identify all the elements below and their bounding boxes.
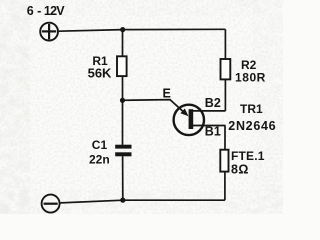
svg-text:180R: 180R — [235, 70, 266, 84]
svg-text:56K: 56K — [88, 66, 112, 81]
wire from C1 to bottom rail — [122, 156, 124, 200]
svg-text:8Ω: 8Ω — [231, 163, 249, 177]
capacitor C1 top plate — [115, 145, 131, 149]
svg-text:B1: B1 — [205, 124, 221, 138]
wire from junction down to C1 — [122, 100, 124, 145]
resistor R1 body — [117, 56, 127, 76]
battery negative terminal — [42, 195, 60, 213]
emitter arrowhead — [180, 109, 188, 117]
earphone FTE.1 body — [220, 150, 228, 172]
base-one wire B1 — [193, 125, 226, 127]
svg-text:E: E — [163, 86, 171, 100]
svg-text:FTE.1: FTE.1 — [231, 149, 265, 163]
junction node at bottom rail — [120, 198, 125, 203]
wire from FTE.1 to bottom rail corner — [224, 172, 226, 201]
junction node R1/C1/emitter — [120, 98, 125, 103]
svg-text:C1: C1 — [92, 138, 108, 152]
svg-text:TR1: TR1 — [240, 102, 263, 116]
resistor R2 body — [221, 59, 231, 79]
base-two wire B2 — [193, 110, 226, 112]
wire from top rail down to R1 — [122, 30, 124, 57]
emitter wire from junction to transistor — [123, 100, 185, 113]
bottom rail wire from - terminal to corner — [61, 200, 225, 203]
capacitor C1 bottom plate — [115, 152, 131, 156]
svg-text:B2: B2 — [205, 96, 221, 110]
paper background — [0, 0, 283, 214]
transistor TR1 base bar — [189, 109, 194, 129]
junction node at top of R1 branch — [120, 27, 125, 32]
wire from B1 down to FTE.1 — [224, 126, 226, 150]
battery positive terminal — [40, 23, 58, 41]
svg-text:6-12V: 6-12V — [27, 4, 66, 18]
wire from R2 down to B2 — [224, 79, 226, 111]
wire from R1 to junction node — [122, 76, 124, 100]
wire from top rail corner down to R2 — [224, 29, 226, 59]
svg-text:2N2646: 2N2646 — [228, 119, 276, 133]
transistor TR1 circle — [174, 105, 204, 135]
wire top rail from + terminal to right corner — [59, 29, 226, 31]
svg-text:22n: 22n — [89, 152, 110, 166]
